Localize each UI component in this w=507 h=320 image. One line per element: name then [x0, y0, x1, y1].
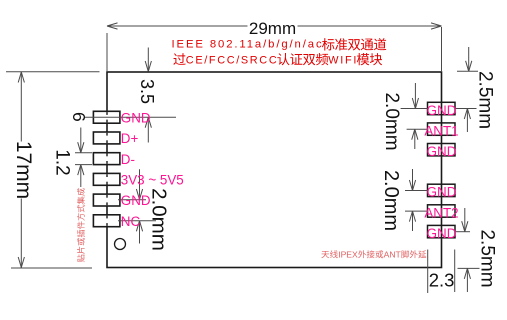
svg-text:2.5mm: 2.5mm — [477, 229, 498, 287]
right pad 4 — [428, 184, 456, 196]
left pad 3 — [93, 153, 120, 165]
svg-text:CE/FCC/SRCC: CE/FCC/SRCC — [186, 54, 277, 66]
right pad 1 — [428, 102, 456, 114]
svg-text:1.2: 1.2 — [51, 149, 72, 175]
svg-text:GND: GND — [121, 110, 151, 125]
svg-text:ANT1: ANT1 — [424, 123, 458, 138]
module outline — [107, 72, 442, 268]
dim 17mm extension lines — [6, 71, 100, 73]
svg-text:3V3 ~ 5V5: 3V3 ~ 5V5 — [121, 173, 184, 188]
title line 1 — [172, 38, 387, 50]
svg-text:2.3: 2.3 — [429, 270, 455, 291]
left pad 2 — [93, 132, 120, 144]
right pad 3 — [428, 144, 456, 156]
dim 2.0mm left — [139, 169, 141, 199]
title line 2 — [173, 53, 382, 66]
centerline stub in pad 6 — [106, 216, 108, 219]
extension ticks right bottom group — [405, 190, 428, 192]
right pad 5 — [428, 205, 456, 217]
dim 2.0mm right top — [414, 83, 416, 109]
pad3 extension ticks — [75, 152, 92, 154]
svg-text:GND: GND — [427, 144, 457, 159]
dim 3.5 — [147, 48, 149, 72]
dim 29mm extension lines — [106, 33, 108, 71]
dim 17mm line — [20, 72, 22, 142]
svg-text:17mm: 17mm — [12, 141, 35, 199]
note mounting (vertical) — [77, 188, 85, 262]
right pad 2 — [428, 123, 456, 135]
centerline stub in pad 2 — [106, 133, 108, 136]
centerline stub in pad 3 — [106, 154, 108, 157]
svg-text:2.0mm: 2.0mm — [148, 188, 171, 251]
svg-text:GND: GND — [121, 193, 151, 208]
svg-text:D-: D- — [121, 152, 135, 167]
svg-text:6: 6 — [69, 112, 89, 122]
svg-text:ANT2: ANT2 — [424, 205, 458, 220]
dim 2.0mm right bottom — [412, 169, 414, 191]
svg-text:2.0mm: 2.0mm — [380, 170, 402, 231]
svg-text:2.0mm: 2.0mm — [381, 92, 402, 150]
svg-text:GND: GND — [427, 185, 457, 200]
dim 29mm line — [107, 25, 248, 27]
svg-text:29mm: 29mm — [249, 19, 296, 38]
svg-text:2.5mm: 2.5mm — [475, 71, 496, 129]
dim 1.2 — [80, 165, 82, 187]
note antenna — [321, 250, 426, 260]
extension ticks — [455, 231, 470, 233]
left pad 1 — [93, 111, 120, 123]
centerline stub in pad 5 — [106, 195, 108, 198]
left pad 6 — [93, 215, 120, 227]
dim 2.5mm right top — [468, 47, 470, 71]
svg-text:3.5: 3.5 — [137, 79, 157, 104]
svg-text:D+: D+ — [121, 131, 139, 146]
centerline stub in pad 4 — [106, 174, 108, 177]
right pad 6 — [428, 225, 456, 237]
dim 2.5mm right bottom — [464, 208, 466, 232]
extension line pad1 center — [84, 116, 176, 118]
svg-text:GND: GND — [427, 226, 457, 241]
pad5/pad6 center extension lines — [118, 199, 146, 201]
fiducial circle — [115, 239, 126, 250]
extension ticks — [457, 70, 478, 72]
centerline stub in pad 1 — [106, 112, 108, 115]
svg-text:NC: NC — [121, 214, 141, 229]
left pad 5 — [93, 194, 120, 206]
svg-text:ANT: ANT — [384, 250, 402, 260]
svg-text:GND: GND — [427, 103, 457, 118]
dim 2.3 extension lines — [427, 250, 429, 294]
svg-text:IPEX: IPEX — [338, 250, 358, 260]
extension ticks right top group — [401, 108, 428, 110]
left pad 4 — [93, 173, 120, 185]
